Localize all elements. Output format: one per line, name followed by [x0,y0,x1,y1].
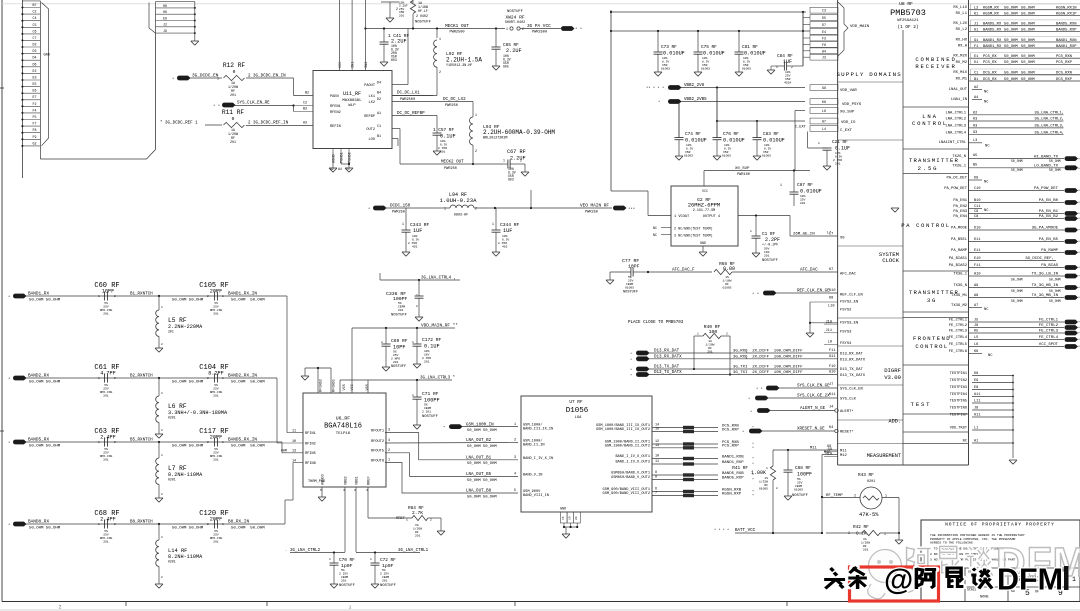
svg-text:U6_RF: U6_RF [336,416,351,422]
svg-text:G10: G10 [829,371,835,375]
svg-text:NC: NC [984,308,989,312]
svg-text:50_OHM: 50_OHM [1049,299,1061,303]
lna U6 outline [303,393,386,487]
inductor L6 [156,378,228,434]
svg-text:PAOUT: PAOUT [364,84,376,88]
svg-text:L4: L4 [822,127,826,131]
svg-text:F8: F8 [33,128,37,132]
U8 RX rows [953,4,1080,82]
svg-text:M11: M11 [840,449,848,453]
U8 PA control rows [944,176,1080,271]
wire LOO down [397,139,399,147]
capacitor C336 [386,280,424,318]
svg-text:50_OHM: 50_OHM [1011,289,1023,293]
capacitor C75 [694,31,725,72]
svg-text:1: 1 [514,423,516,427]
svg-text:50_OHM 50_OHM: 50_OHM 50_OHM [467,495,497,499]
svg-text:* *: * * [213,104,220,109]
wire VDD_MAIN [352,324,458,330]
svg-text:01005: 01005 [762,155,771,158]
svg-text:NC: NC [984,181,989,185]
R11 value [228,128,238,144]
svg-text:BRL2012T2R2M: BRL2012T2R2M [483,137,507,141]
svg-text:J3: J3 [822,56,826,60]
ground [521,164,529,176]
watermark @ black [884,564,913,597]
ground [694,72,702,76]
sheet border bottom [2,602,1080,607]
svg-text:1: 1 [406,519,408,522]
svg-text:C2: C2 [303,102,307,106]
svg-text:FE_CTRL1: FE_CTRL1 [1039,319,1059,323]
ground [413,425,421,429]
U8 section LNA CONTROL [912,113,948,127]
svg-text:3G_LNA_CTRL4 ,: 3G_LNA_CTRL4 , [421,277,456,281]
svg-text:0.1UF: 0.1UF [440,134,456,140]
wire U6 vcc riser [351,328,353,393]
svg-text:DC_DC_REFBP: DC_DC_REFBP [397,112,425,116]
svg-text:BAND5_RX: BAND5_RX [983,22,1002,26]
svg-text:*: * [752,494,754,499]
svg-text:50_OHM: 50_OHM [1049,289,1061,293]
svg-text:8.2PF: 8.2PF [208,371,224,377]
svg-text:TX3G_M2: TX3G_M2 [951,304,968,308]
svg-text:NOTICE OF PROPRIETARY PROPERTY: NOTICE OF PROPRIETARY PROPERTY [945,522,1055,528]
wire R43 right [882,498,900,535]
svg-text:PA_POW_DET: PA_POW_DET [1034,187,1059,191]
svg-text:FSYS3: FSYS3 [840,330,852,334]
svg-text:RFGND2: RFGND2 [320,379,324,392]
wire MECK2 right [473,163,503,165]
svg-text:FSYS2_EN: FSYS2_EN [840,301,858,305]
wire row4 label [466,473,497,483]
wire L94 right [474,204,612,215]
wire rfin8 route [292,463,294,501]
svg-text:50_OHM: 50_OHM [1021,12,1035,16]
svg-text:VDD_PSYS: VDD_PSYS [842,103,862,107]
svg-text:LNA1INT_CTRL: LNA1INT_CTRL [939,141,967,145]
capacitor C21 [808,132,850,167]
ground [492,66,500,70]
svg-text:* * * *: * * * * [714,528,729,533]
ground [155,434,163,438]
svg-text:FE_CTRL6: FE_CTRL6 [949,350,968,354]
U8 LNA1INT [939,139,991,149]
svg-text:2: 2 [522,27,524,31]
svg-text:L7: L7 [829,233,833,237]
svg-text:B4: B4 [377,92,381,96]
ground [767,66,775,74]
svg-text:D13_RX_DATX: D13_RX_DATX [654,355,682,359]
U6 right pins [371,429,518,494]
net tag SYS_CLK_EN_GE [756,383,838,392]
svg-text:R42 RF: R42 RF [853,525,869,530]
svg-text:L7 RF: L7 RF [168,465,187,472]
svg-text:2: 2 [161,576,163,579]
svg-text:C81 RF: C81 RF [742,45,758,50]
svg-text:FE_CTRL4: FE_CTRL4 [1039,336,1059,340]
svg-text:MECK2 OUT: MECK2 OUT [441,161,464,165]
svg-text:PCS_RXP: PCS_RXP [1056,61,1073,65]
svg-text:1/20W: 1/20W [705,343,714,347]
svg-text:*: * [752,462,754,467]
svg-text:50_OHM: 50_OHM [1021,61,1035,65]
svg-text:E4: E4 [822,30,826,34]
svg-text:201: 201 [103,541,109,544]
svg-text:1: 1 [222,523,224,526]
svg-text:2: 2 [430,519,432,522]
svg-text:GSM_1800_IN: GSM_1800_IN [466,423,494,427]
svg-text:L3: L3 [973,139,977,143]
svg-text:0.010UF: 0.010UF [663,51,685,57]
svg-text:1: 1 [444,207,446,211]
svg-text:B1_RXNTCH: B1_RXNTCH [130,293,153,297]
U8 test rows [950,372,1014,458]
svg-text:C74 RF: C74 RF [685,132,701,137]
U8 supply pin boxes 2 [810,85,838,132]
svg-text:REF_CLK_EN_GE: REF_CLK_EN_GE [797,290,830,294]
svg-text:0.010UF: 0.010UF [763,138,785,144]
svg-text:L10: L10 [828,305,834,309]
wire R11 left [160,121,222,126]
svg-text:50_OHM 50_OHM: 50_OHM 50_OHM [467,479,497,483]
svg-text:E5: E5 [33,82,37,86]
svg-text:3G_DCDC_EN: 3G_DCDC_EN [192,74,219,79]
svg-text:4: 4 [514,473,516,477]
wire H7 [756,121,758,138]
svg-text:A4: A4 [338,167,342,171]
svg-text:FSYS3_EN: FSYS3_EN [840,322,858,326]
U8 section ADD [889,419,901,425]
svg-text:201: 201 [764,255,770,258]
svg-text:D13_RX_DAT: D13_RX_DAT [654,350,680,354]
wire 3G_PA_VCC [520,24,582,35]
svg-text:BAND5_RXN: BAND5_RXN [1056,22,1077,26]
svg-text:4.7PF: 4.7PF [100,371,116,377]
svg-text:NOSTUFF: NOSTUFF [391,365,406,369]
svg-text:DFM: DFM [997,563,1063,597]
svg-text:B8_RXNTCH: B8_RXNTCH [130,521,153,525]
svg-text:SYS_CLK_EN_GE: SYS_CLK_EN_GE [797,385,830,389]
svg-text:BAND1_RX: BAND1_RX [983,45,1002,49]
capacitor C1 [750,216,780,264]
U8 LNA ctrl rows [945,111,1064,135]
svg-text:B3: B3 [303,108,307,112]
svg-text:PAEN: PAEN [330,95,339,99]
svg-text:RX_L1X: RX_L1X [953,6,967,10]
svg-text:201: 201 [168,330,174,334]
svg-text:FE_CTRL4: FE_CTRL4 [949,336,968,340]
svg-text:VBB2_2V8: VBB2_2V8 [684,84,705,88]
svg-text:TX_3G_MB_IN: TX_3G_MB_IN [1032,294,1059,298]
svg-text:TESTPIN2: TESTPIN2 [950,379,967,383]
svg-text:50_OHM 50_OHM: 50_OHM 50_OHM [467,462,497,466]
svg-text:0.010UF: 0.010UF [744,51,766,57]
capacitor C84 [775,54,797,85]
svg-text:3G_DCDC_REF,: 3G_DCDC_REF, [1025,257,1054,261]
svg-text:CONTROL: CONTROL [912,120,948,127]
svg-text:2: 2 [776,487,778,490]
svg-text:RFOUT2: RFOUT2 [371,440,384,444]
svg-text:GSM_1900/BAND_II_OUT2: GSM_1900/BAND_II_OUT2 [605,443,650,448]
wire riser to C67 gnd [530,190,532,208]
svg-text:FSYS2: FSYS2 [840,309,852,313]
svg-text:1/20W: 1/20W [413,527,422,531]
svg-text:TEST: TEST [911,401,932,408]
svg-text:F7: F7 [33,122,37,126]
transceiver U8 outline [838,0,969,465]
svg-text:PCS_RXN: PCS_RXN [1056,55,1072,59]
svg-text:DC_DC_LX2: DC_DC_LX2 [443,98,466,102]
svg-text:3G_TXI 2X_DIFF 100_OHM_DIFF: 3G_TXI 2X_DIFF 100_OHM_DIFF [733,371,803,375]
svg-text:F2: F2 [33,102,37,106]
ground [1009,460,1017,464]
svg-text:RF_TEMP: RF_TEMP [826,494,843,498]
svg-text:PA_EN2: PA_EN2 [953,205,967,209]
svg-text:201: 201 [213,459,219,462]
net tag VBB2_2VB5 [658,98,805,105]
svg-text:201: 201 [393,361,399,364]
svg-text:F10: F10 [829,365,835,369]
svg-text:20PF: 20PF [210,289,222,295]
svg-text:1: 1 [217,77,219,81]
ground [415,317,423,321]
capacitor C43 values [399,2,408,18]
svg-text:D5: D5 [822,16,826,20]
svg-text:LX1: LX1 [369,95,375,99]
svg-text:50_OHM: 50_OHM [1004,61,1018,65]
inductor L14 [156,524,203,584]
wire 3G_LNA_CTRL1 [356,549,429,554]
svg-text:C76 RF: C76 RF [723,132,739,137]
wire 3G_LNA_CTRL4 [380,273,460,281]
svg-text:F3: F3 [822,37,826,41]
svg-text:0.010UF: 0.010UF [685,138,707,144]
svg-text:C2: C2 [33,10,37,14]
svg-text:D4: D4 [377,82,381,86]
ground [806,333,814,337]
svg-text:201: 201 [398,309,404,312]
svg-text:LGA: LGA [575,416,583,420]
ground [735,72,743,76]
svg-text:*: * [8,441,10,446]
title block cells [921,568,1080,602]
svg-text:B7: B7 [33,3,37,7]
svg-text:BAND_I_IV_X_IN: BAND_I_IV_X_IN [523,457,553,461]
svg-text:1: 1 [884,532,886,536]
svg-text:AFC_DAC_F: AFC_DAC_F [672,269,695,273]
svg-text:C3: C3 [822,9,826,13]
svg-text:VG5: VG5 [343,384,347,390]
svg-text:BAND2_RX_IN: BAND2_RX_IN [228,374,257,379]
capacitor C61 row BAND2_RX [8,364,277,398]
U8 section PA CONTROL [901,222,951,229]
svg-text:*: * [630,352,632,357]
svg-text:RFIN1: RFIN1 [305,432,316,436]
svg-text:* *: * * [752,292,759,297]
svg-text:RX_M1: RX_M1 [956,78,968,82]
svg-text:F4: F4 [33,108,37,112]
U8 section dividers [903,107,969,444]
svg-text:* *: * * [575,27,582,32]
svg-text:1: 1 [402,222,404,226]
svg-text:50_OHM 50_OHM: 50_OHM 50_OHM [172,299,204,303]
svg-text:G11: G11 [829,355,835,359]
svg-text:R43 RF: R43 RF [858,473,874,478]
U8 section TRANSMITTER 3G [909,289,959,304]
svg-text:D2: D2 [377,98,381,102]
svg-text:RECEIVER: RECEIVER [915,63,956,70]
svg-text:50_OHM: 50_OHM [1004,12,1018,16]
U7 right rows to baluns [596,423,754,499]
svg-text:F6: F6 [822,43,826,47]
svg-text:SYS_CLK_EN: SYS_CLK_EN [840,387,863,391]
svg-text:RFOUT5: RFOUT5 [371,450,384,454]
svg-text:2 0402: 2 0402 [416,14,428,18]
svg-text:J7: J7 [829,383,833,387]
svg-text:PA_EN_B0: PA_EN_B0 [1039,199,1059,203]
U8 left mid rows [828,233,863,313]
capacitor C57 [433,116,456,154]
svg-text:H6: H6 [163,4,167,8]
svg-text:2: 2 [207,441,209,444]
wire vbb vertical [679,88,758,138]
svg-text:2: 2 [207,523,209,526]
svg-text:CLOCK: CLOCK [882,257,899,264]
wire R42 gnd [898,533,900,540]
svg-text:1: 1 [161,536,163,539]
svg-text:2: 2 [520,159,522,163]
svg-text:50_OHM 50_OHM: 50_OHM 50_OHM [467,429,497,433]
wire supply row2 [611,30,810,32]
svg-text:VDD_TK8T: VDD_TK8T [950,427,968,431]
svg-text:FE_CTRL5: FE_CTRL5 [949,343,968,347]
svg-text:50_OHM 50_OHM: 50_OHM 50_OHM [172,445,204,449]
svg-text:50_OHM: 50_OHM [1004,71,1018,75]
svg-text:J9: J9 [163,29,167,33]
capacitor C41 [380,29,410,63]
svg-text:XRESET_N_GE: XRESET_N_GE [797,428,825,432]
svg-text:NC: NC [984,101,989,105]
svg-text:NOSTUFF: NOSTUFF [339,584,356,588]
inductor L93 [470,117,556,145]
svg-text:50_OHM 50_OHM: 50_OHM 50_OHM [29,445,61,449]
svg-text:E9: E9 [163,16,167,20]
svg-text:FE_CTRL2: FE_CTRL2 [949,324,968,328]
svg-text:0201: 0201 [168,560,176,564]
svg-text:50_OHM: 50_OHM [1004,78,1018,82]
svg-text:201: 201 [382,580,388,583]
svg-text:E2: E2 [33,69,37,73]
svg-text:DIGRF: DIGRF [884,367,901,374]
svg-text:DCS_RXP: DCS_RXP [1056,78,1073,82]
ground [753,156,761,160]
svg-text:*: * [750,410,752,415]
capacitor C87 [780,171,822,207]
svg-text:201: 201 [213,313,219,316]
svg-text:*: * [172,77,174,82]
svg-text:100PF: 100PF [797,472,812,478]
svg-text:VDD_MAIN_RF **: VDD_MAIN_RF ** [421,324,458,329]
wire G2 gnd [702,246,704,252]
svg-text:X0_SUP: X0_SUP [840,111,855,115]
resistor R12 [223,62,246,81]
svg-text:201: 201 [424,361,430,364]
svg-text:19: 19 [569,516,572,520]
wire PAOUT [407,29,409,85]
wire FSYS gnd [809,302,838,333]
svg-text:50_OHM 50_OHM: 50_OHM 50_OHM [231,381,265,385]
svg-text:201: 201 [213,541,219,544]
svg-text:NOSTUFF: NOSTUFF [391,314,408,318]
svg-text:D13_RX_DATX: D13_RX_DATX [840,358,866,362]
svg-text:1: 1 [506,27,508,31]
svg-text:50_OHM: 50_OHM [1049,159,1061,163]
svg-text:0: 0 [232,116,235,122]
wire DCDC_150 [386,205,450,215]
svg-text:RX_M2: RX_M2 [956,61,968,65]
svg-text:REFIN: REFIN [330,125,341,129]
svg-text:100: 100 [709,329,718,335]
svg-text:50_OHM: 50_OHM [1011,278,1023,282]
wire D13_TX_DAT [630,365,838,373]
svg-text:PCS_RXP: PCS_RXP [722,445,739,449]
svg-text:RX_HX: RX_HX [956,39,968,43]
U8 section COMBINED RECEIVER [915,56,956,70]
U8 section DIGRF [884,367,901,381]
svg-text:PWR250: PWR250 [585,211,598,215]
svg-text:D4: D4 [33,56,37,60]
U11 title [342,91,362,108]
svg-text:2 3G_DCDC_REF_IN: 2 3G_DCDC_REF_IN [248,122,289,126]
svg-text:01005: 01005 [722,155,731,158]
svg-text:F9: F9 [33,135,37,139]
svg-text:SUPPLY DOMAINS: SUPPLY DOMAINS [836,71,902,78]
svg-text:10PF: 10PF [628,264,640,270]
svg-text:@: @ [884,564,913,597]
U8 inner line [902,30,904,465]
svg-text:*: * [752,457,754,462]
svg-text:RREF: RREF [368,476,372,485]
net tag VBB2_2V8 [646,84,805,91]
svg-text:BAND5_RXP: BAND5_RXP [722,476,744,480]
svg-text:50_OHM 50_OHM: 50_OHM 50_OHM [172,381,204,385]
svg-text:FRONTEND: FRONTEND [913,335,951,342]
svg-text:LNA: LNA [922,113,937,120]
svg-text:5: 5 [514,489,516,493]
U8 left lower pin names [824,320,866,458]
ground [752,253,760,257]
svg-text:LNA1_IN: LNA1_IN [951,98,967,102]
svg-text:0803-HF: 0803-HF [454,214,468,218]
svg-text:13: 13 [655,444,659,448]
wire R12 right [246,75,313,96]
wire LX1 [392,95,437,97]
U8 LNA1 pins [949,86,990,105]
op-amp U11 outline [313,71,392,149]
svg-text:2: 2 [161,493,163,496]
svg-text:TESTPIN7: TESTPIN7 [950,414,967,418]
svg-text:NC: NC [985,145,990,149]
title block paragraph [930,533,1025,562]
svg-text:SYS_CLK_GE_2X: SYS_CLK_GE_2X [797,395,830,399]
capacitor C83 [753,121,785,158]
svg-text:K8: K8 [822,100,826,104]
svg-text:2.4PF: 2.4PF [100,517,116,523]
svg-text:L9: L9 [828,341,832,345]
U6 thrm [308,480,325,484]
svg-text:*: * [8,523,10,528]
